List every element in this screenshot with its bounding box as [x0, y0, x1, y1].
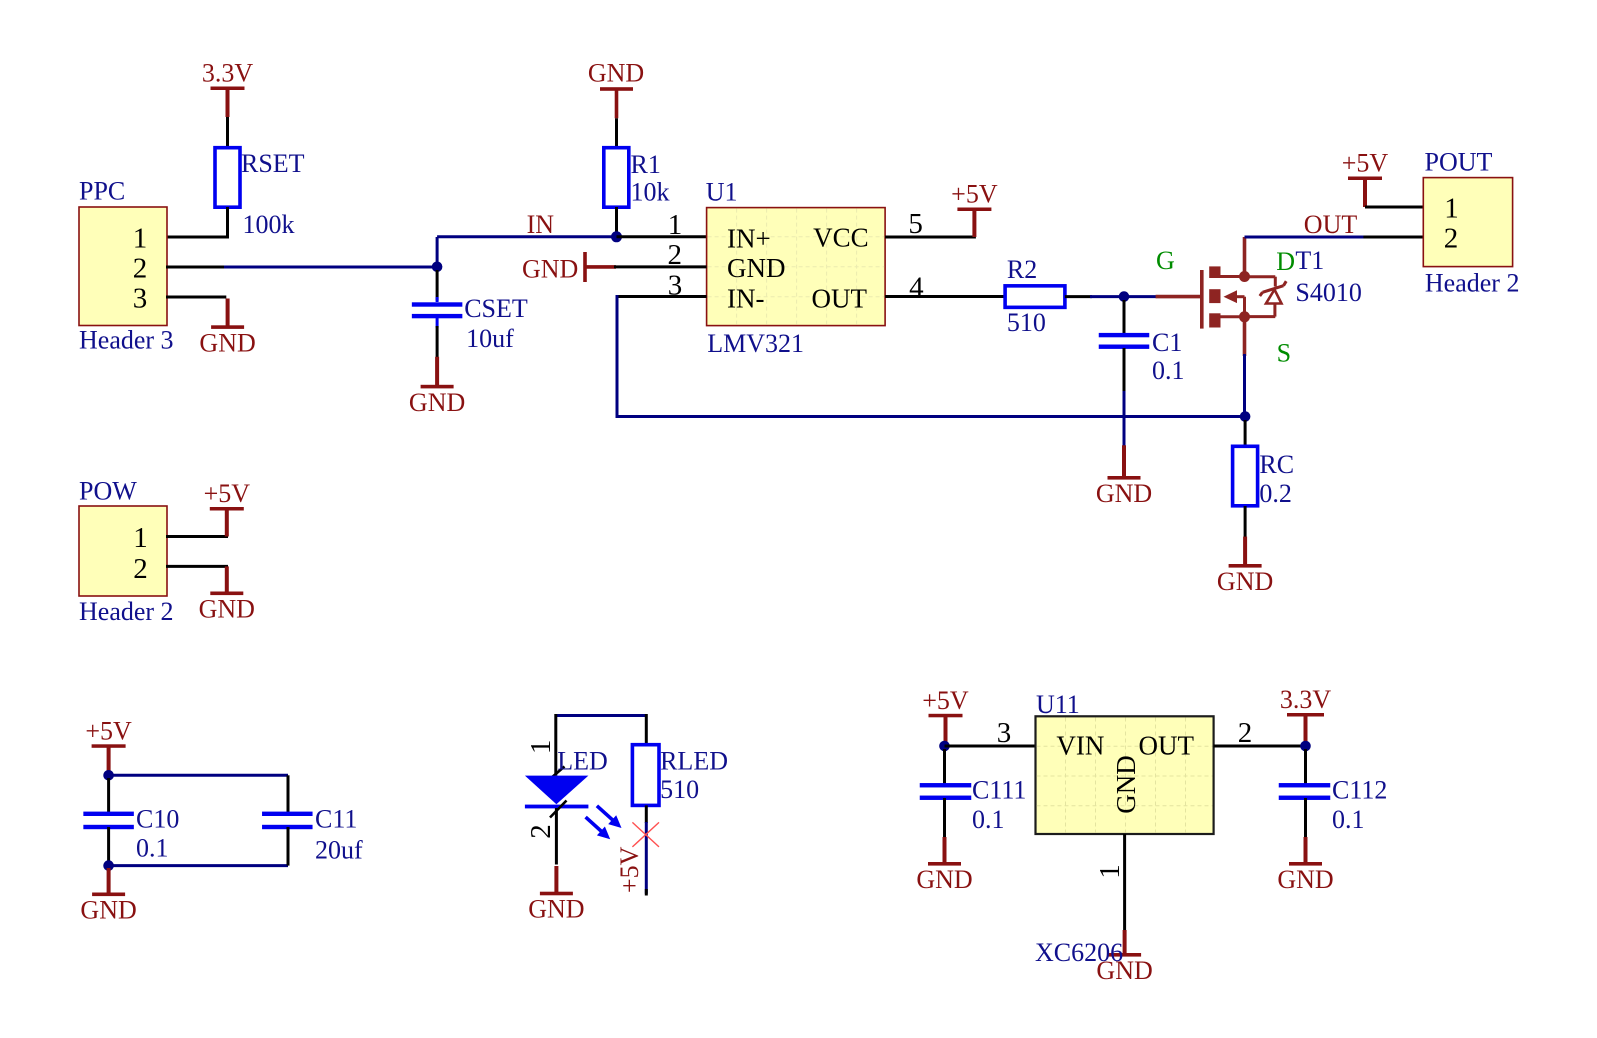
svg-text:1: 1: [668, 209, 683, 241]
svg-text:GND: GND: [199, 328, 255, 357]
svg-text:GND: GND: [528, 895, 584, 924]
svg-text:Header 2: Header 2: [79, 597, 174, 626]
svg-text:100k: 100k: [243, 210, 295, 239]
svg-text:G: G: [1156, 246, 1175, 275]
svg-text:2: 2: [133, 553, 148, 585]
svg-text:LED: LED: [557, 747, 608, 776]
svg-text:T1: T1: [1295, 246, 1324, 275]
svg-text:R2: R2: [1007, 255, 1037, 284]
svg-text:OUT: OUT: [812, 284, 868, 314]
svg-text:1: 1: [133, 522, 148, 554]
svg-text:+5V: +5V: [615, 846, 644, 893]
svg-text:0.1: 0.1: [972, 805, 1005, 834]
svg-text:GND: GND: [1217, 567, 1273, 596]
svg-text:GND: GND: [1096, 479, 1152, 508]
svg-text:3.3V: 3.3V: [202, 59, 254, 88]
svg-text:RC: RC: [1259, 450, 1294, 479]
svg-text:2: 2: [525, 824, 557, 839]
svg-text:VCC: VCC: [813, 222, 869, 252]
svg-text:+5V: +5V: [922, 686, 969, 715]
svg-text:IN: IN: [527, 210, 555, 239]
svg-text:10uf: 10uf: [466, 324, 514, 353]
svg-text:R1: R1: [631, 150, 661, 179]
svg-text:+5V: +5V: [204, 479, 251, 508]
svg-text:IN-: IN-: [727, 284, 764, 314]
svg-text:0.1: 0.1: [136, 834, 169, 863]
svg-text:GND: GND: [1277, 865, 1333, 894]
svg-text:C11: C11: [315, 805, 357, 834]
svg-text:3: 3: [133, 282, 148, 314]
svg-text:GND: GND: [1111, 755, 1141, 814]
svg-text:CSET: CSET: [464, 294, 528, 323]
svg-text:0.1: 0.1: [1332, 805, 1365, 834]
svg-text:S4010: S4010: [1295, 278, 1361, 307]
svg-text:GND: GND: [522, 255, 578, 284]
svg-text:XC6206: XC6206: [1035, 938, 1123, 967]
svg-text:GND: GND: [409, 388, 465, 417]
svg-text:S: S: [1277, 339, 1291, 368]
svg-text:0.2: 0.2: [1259, 479, 1292, 508]
svg-text:GND: GND: [199, 595, 255, 624]
svg-text:4: 4: [909, 272, 924, 304]
svg-text:+5V: +5V: [951, 180, 998, 209]
svg-text:POW: POW: [79, 476, 137, 505]
svg-text:C111: C111: [972, 776, 1026, 805]
svg-text:GND: GND: [727, 253, 786, 283]
svg-text:2: 2: [133, 252, 148, 284]
svg-text:C1: C1: [1152, 328, 1182, 357]
svg-text:GND: GND: [80, 896, 136, 925]
svg-text:Header 2: Header 2: [1425, 269, 1520, 298]
svg-text:C10: C10: [136, 805, 179, 834]
svg-text:LMV321: LMV321: [707, 329, 804, 358]
svg-text:U11: U11: [1036, 690, 1080, 719]
svg-text:5: 5: [908, 208, 923, 240]
svg-text:OUT: OUT: [1139, 731, 1195, 761]
svg-text:0.1: 0.1: [1152, 356, 1185, 385]
svg-text:GND: GND: [588, 59, 644, 88]
svg-text:PPC: PPC: [79, 177, 125, 206]
svg-text:POUT: POUT: [1425, 148, 1493, 177]
svg-text:RLED: RLED: [660, 747, 728, 776]
svg-text:20uf: 20uf: [315, 836, 363, 865]
svg-text:IN+: IN+: [727, 223, 771, 253]
svg-text:VIN: VIN: [1056, 731, 1104, 761]
svg-text:510: 510: [660, 775, 699, 804]
svg-text:10k: 10k: [631, 178, 670, 207]
svg-text:2: 2: [1238, 717, 1253, 749]
svg-text:RSET: RSET: [241, 149, 305, 178]
svg-text:GND: GND: [916, 865, 972, 894]
svg-text:510: 510: [1007, 308, 1046, 337]
svg-text:1: 1: [133, 222, 148, 254]
svg-text:2: 2: [1444, 222, 1459, 254]
svg-text:3: 3: [997, 717, 1012, 749]
svg-text:1: 1: [1094, 864, 1126, 879]
svg-text:C112: C112: [1332, 776, 1387, 805]
svg-text:+5V: +5V: [1342, 149, 1389, 178]
svg-text:Header 3: Header 3: [79, 326, 174, 355]
svg-text:1: 1: [525, 740, 557, 755]
svg-text:D: D: [1276, 247, 1295, 276]
svg-text:+5V: +5V: [85, 716, 132, 745]
svg-text:U1: U1: [706, 178, 738, 207]
svg-text:OUT: OUT: [1304, 210, 1358, 239]
svg-text:3.3V: 3.3V: [1280, 685, 1332, 714]
svg-text:1: 1: [1444, 192, 1459, 224]
